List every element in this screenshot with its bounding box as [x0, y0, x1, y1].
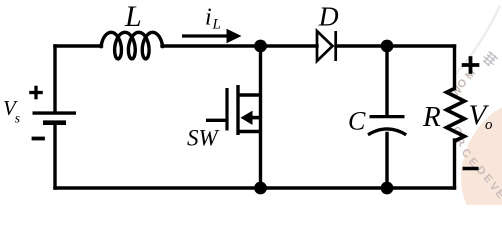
svg-text:s: s — [15, 111, 20, 126]
svg-text:D: D — [318, 1, 339, 32]
gate lead — [206, 119, 227, 122]
battery minus sign — [32, 137, 45, 141]
gate bar — [225, 88, 228, 131]
body arrow shaft — [250, 116, 261, 120]
wire capacitor branch bottom — [385, 134, 388, 189]
wire left vertical top — [53, 46, 56, 112]
battery source Vs — [33, 113, 77, 123]
svg-text:R: R — [422, 101, 441, 133]
wire right vertical top — [453, 46, 456, 89]
source stub — [238, 130, 261, 133]
svg-text:C: C — [348, 106, 366, 135]
node junction dot bottom-left — [254, 182, 267, 195]
wire left vertical bottom — [53, 124, 56, 188]
wire bottom rail — [55, 186, 455, 189]
wire top rail right — [336, 44, 455, 47]
svg-text:SW: SW — [187, 125, 220, 150]
resistor R zigzag — [447, 88, 465, 141]
svg-text:o: o — [485, 117, 493, 133]
wire mosfet branch vertical — [259, 46, 262, 188]
gray char — [481, 50, 499, 68]
node junction dot top-left (drain node) — [254, 40, 267, 53]
wire top rail mid — [162, 44, 317, 47]
faint arc — [456, 6, 500, 74]
diode D — [317, 31, 336, 61]
inductor L — [101, 32, 163, 59]
node junction dot top-right (output node) — [381, 40, 394, 53]
output plus sign — [462, 56, 480, 74]
watermark stamp (background, right edge) — [441, 6, 502, 240]
drain stub — [238, 93, 261, 96]
node junction dot bottom-right — [381, 182, 394, 195]
wire right vertical bottom — [453, 140, 456, 188]
channel bar — [236, 85, 239, 135]
svg-text:L: L — [212, 17, 221, 33]
body arrow head — [241, 111, 253, 125]
transistor SW (MOSFET) — [206, 85, 261, 135]
battery plus sign — [29, 86, 43, 100]
svg-text:i: i — [205, 5, 212, 31]
capacitor C — [368, 117, 406, 135]
wire capacitor branch top — [385, 46, 388, 115]
peach blob — [441, 84, 502, 240]
current arrow iL — [182, 29, 242, 43]
wire top rail left — [55, 44, 102, 47]
svg-text:L: L — [124, 0, 142, 33]
output minus sign — [463, 167, 479, 171]
